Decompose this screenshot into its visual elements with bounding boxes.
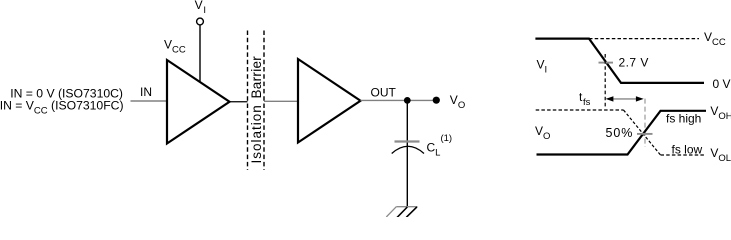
svg-text:Barrier: Barrier bbox=[249, 56, 264, 99]
svg-text:0 V: 0 V bbox=[713, 77, 731, 91]
wire vertical dashed marker at fall crossing bbox=[604, 54, 606, 108]
wire VOL level dashed right bbox=[661, 154, 707, 156]
wire junction to capacitor and ground bbox=[406, 100, 408, 207]
wire tfs arrow bbox=[611, 98, 638, 100]
svg-text:2.7 V: 2.7 V bbox=[619, 56, 649, 70]
isolation barrier dashed line right bbox=[263, 31, 265, 171]
wire VI waveform bbox=[535, 39, 704, 83]
capacitor CL top plate bbox=[395, 140, 420, 142]
svg-text:fs low: fs low bbox=[672, 143, 703, 157]
wire U2 output to VO terminal bbox=[361, 99, 434, 101]
isolation barrier dashed line left bbox=[247, 31, 249, 171]
ground bbox=[396, 206, 417, 208]
node 2.7V crossing tick bbox=[599, 62, 614, 64]
op-amp buffer U2 bbox=[298, 59, 361, 143]
node 50% crossing tick bbox=[637, 133, 653, 135]
svg-text:fs high: fs high bbox=[666, 112, 701, 126]
svg-text:50%: 50% bbox=[606, 126, 634, 140]
wire IN to buffer U1 bbox=[131, 100, 168, 102]
svg-text:IN: IN bbox=[140, 85, 152, 99]
wire VOH level dashed left bbox=[536, 109, 624, 111]
wire barrier to buffer U2 bbox=[264, 100, 298, 102]
wire VCC level dashed bbox=[589, 38, 699, 40]
wire VO waveform bbox=[537, 111, 707, 155]
wire fs low dashed diagonal bbox=[624, 110, 661, 155]
wire U1 output to barrier bbox=[230, 101, 248, 103]
wire vertical dashed marker at rise crossing bbox=[644, 99, 646, 147]
svg-text:OUT: OUT bbox=[371, 86, 397, 100]
node junction dot bbox=[404, 97, 411, 104]
svg-text:Isolation: Isolation bbox=[249, 104, 264, 163]
capacitor CL bottom curved plate bbox=[392, 146, 424, 153]
wire VI to U1 VCC pin bbox=[199, 25, 201, 82]
op-amp buffer U1 bbox=[167, 60, 230, 144]
node VI terminal circle bbox=[197, 18, 204, 25]
node VO terminal dot bbox=[433, 97, 440, 104]
